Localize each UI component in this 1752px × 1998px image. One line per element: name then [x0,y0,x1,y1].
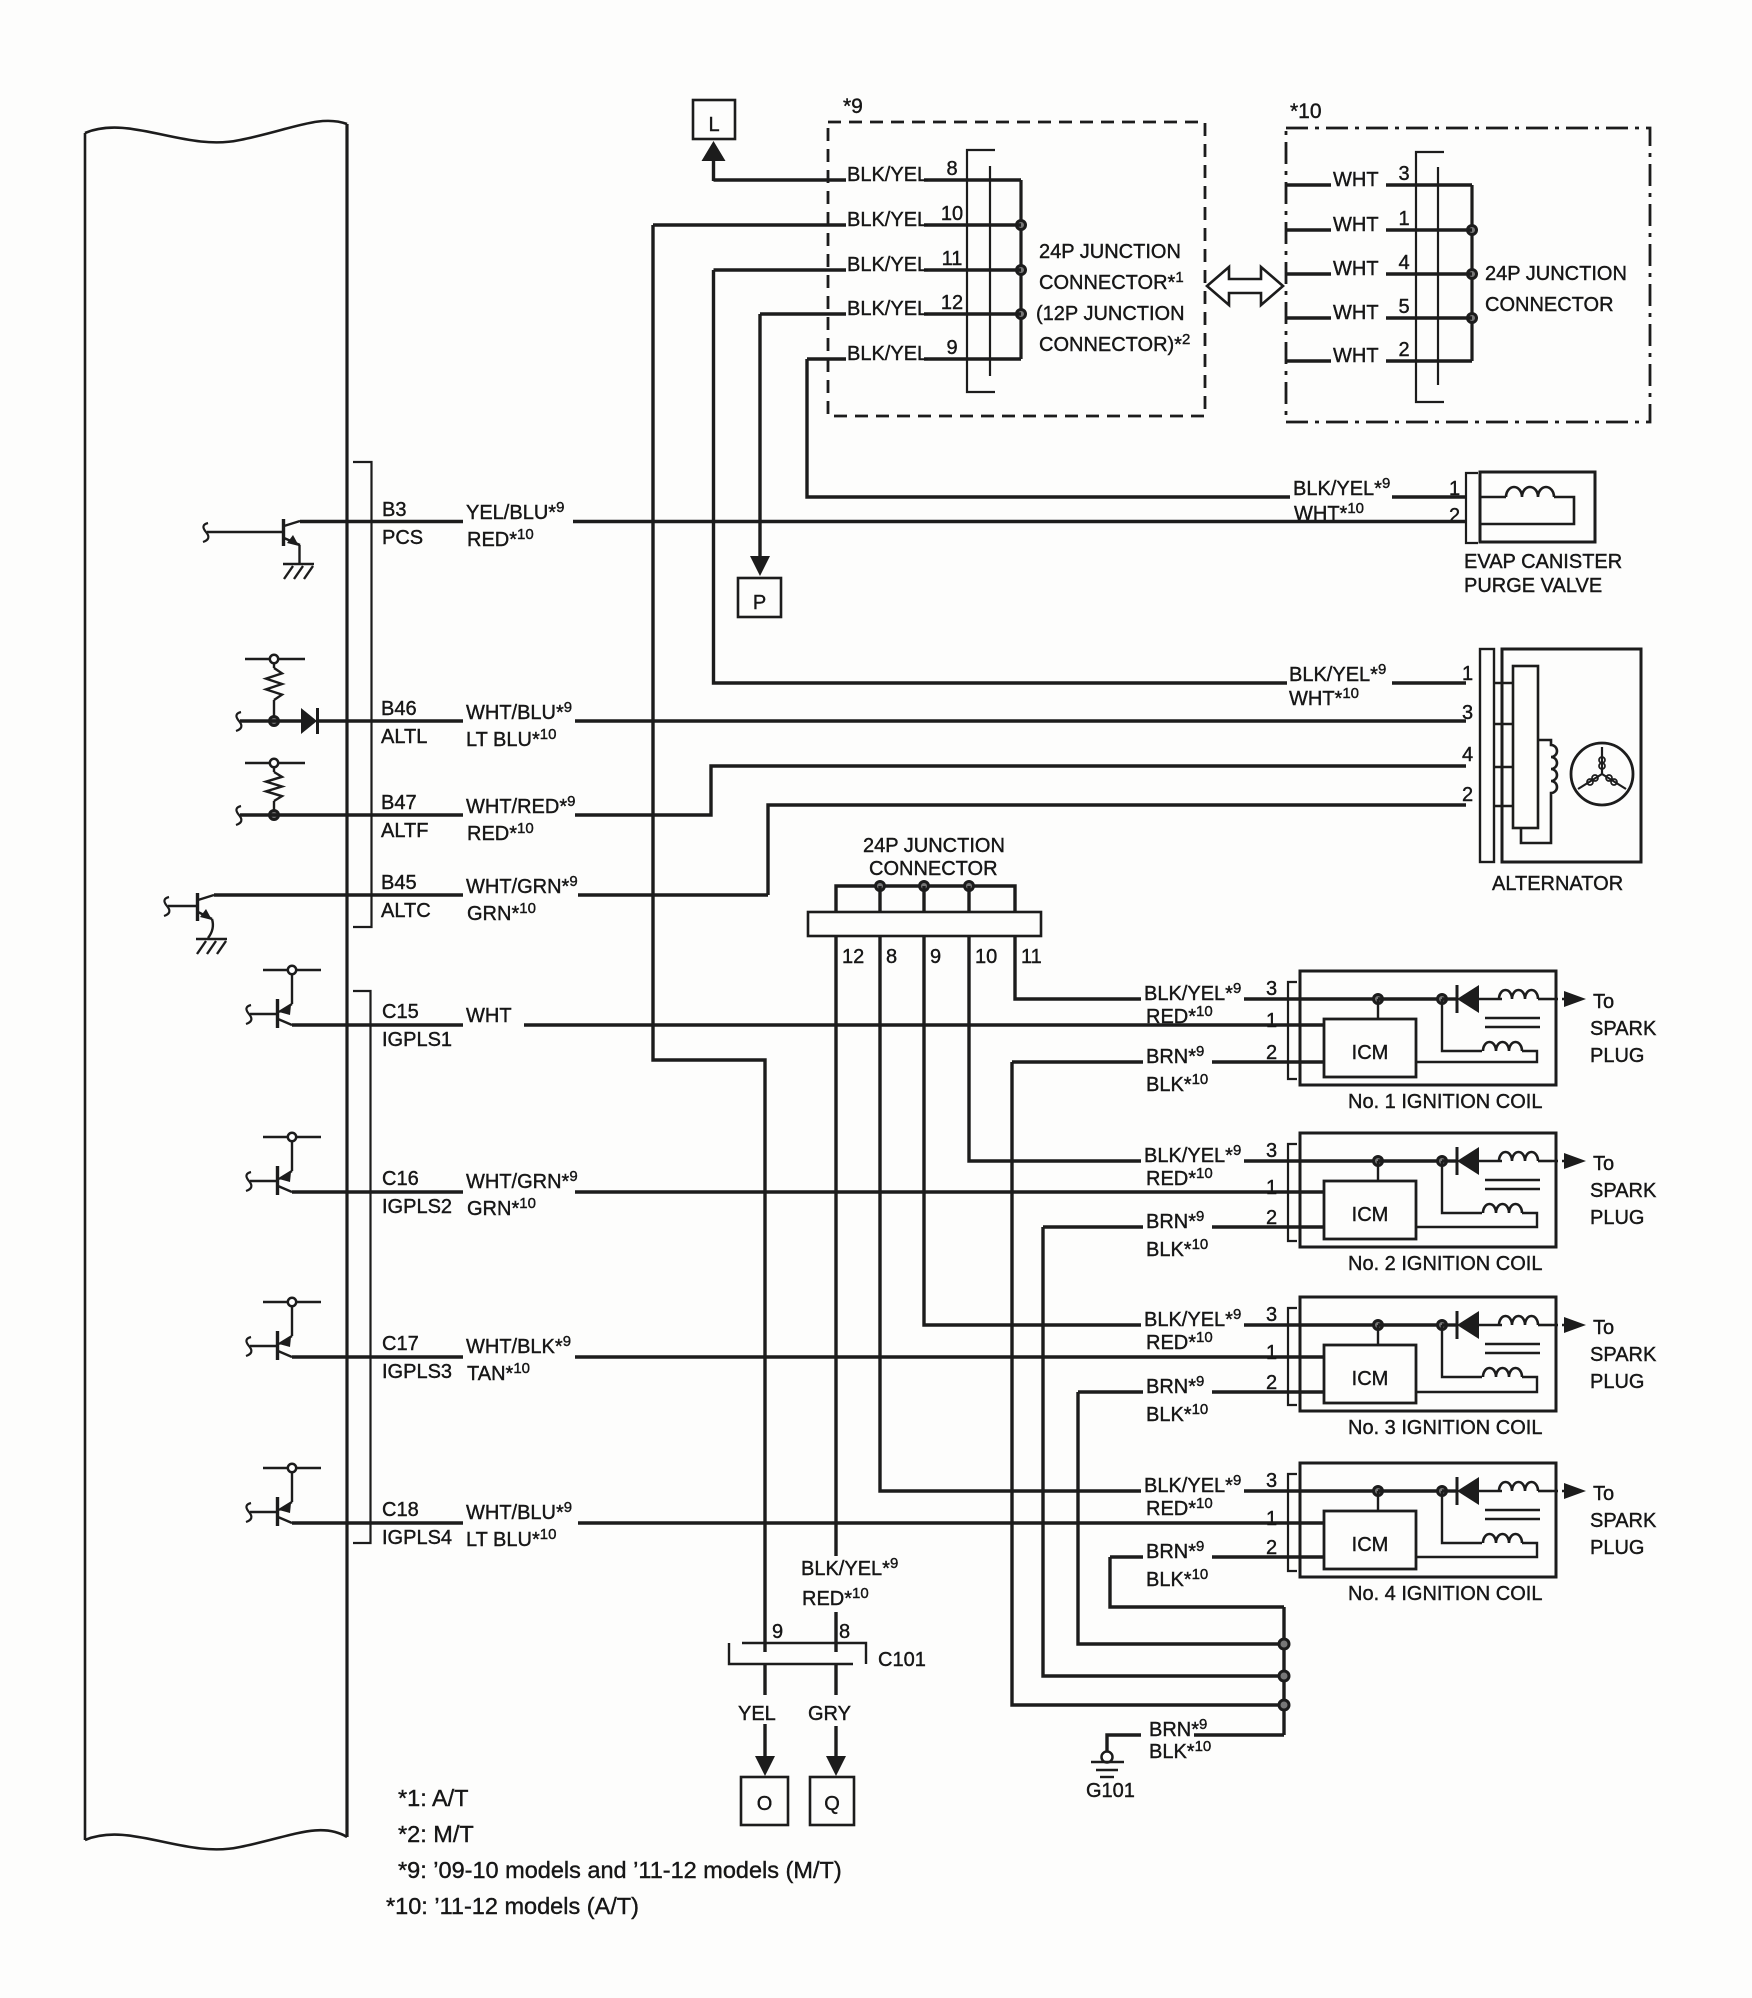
wire pin2 BRN (coil 2) [1043,1225,1143,1228]
svg-text:5: 5 [1398,296,1409,318]
wire WHT pin 5 [1286,316,1331,319]
svg-text:ALTC: ALTC [381,900,431,922]
core lines (coil 3) [1485,1343,1540,1345]
svg-text:9: 9 [930,946,941,968]
wire B3 PCS to EVAP pin2 [573,520,1466,523]
svg-text:CONNECTOR: CONNECTOR [1485,294,1614,316]
wire BRN drop (coil 1) [1012,1062,1284,1705]
wire B45 to alternator pin2 jog [214,893,463,896]
svg-text:9: 9 [772,1621,783,1643]
junction node (ALTF) [270,811,279,820]
svg-text:C16: C16 [382,1168,419,1190]
wire pin3 into coil 2 [1244,1159,1378,1162]
svg-text:*9: *9 [843,95,863,118]
svg-text:WHT/GRN*9: WHT/GRN*9 [466,1168,578,1193]
terminal arrow P [750,556,770,576]
diode (coil 1) [1457,985,1479,1013]
core lines (coil 4) [1485,1509,1540,1511]
svg-text:1: 1 [1266,1010,1277,1032]
svg-text:BLK/YEL*9: BLK/YEL*9 [1293,475,1390,500]
svg-text:IGPLS2: IGPLS2 [382,1196,452,1218]
svg-text:3: 3 [1462,702,1473,724]
svg-text:1: 1 [1266,1342,1277,1364]
svg-text:No. 2 IGNITION COIL: No. 2 IGNITION COIL [1348,1253,1542,1275]
svg-text:24P JUNCTION: 24P JUNCTION [863,835,1005,857]
wire pin2 BRN (coil 4) [1110,1555,1143,1558]
wire C16 [292,1190,463,1193]
svg-text:WHT: WHT [1333,169,1379,191]
svg-text:Q: Q [824,1793,840,1815]
svg-text:2: 2 [1398,339,1409,361]
svg-text:3: 3 [1266,1304,1277,1326]
No.3 IGNITION COIL box [1300,1297,1556,1411]
svg-text:WHT: WHT [1333,214,1379,236]
svg-text:B3: B3 [382,499,406,521]
wire BRN drop (coil 3) [1078,1392,1284,1644]
svg-text:WHT/GRN*9: WHT/GRN*9 [466,873,578,898]
wire pin12 drop to C101 pin8 [834,936,837,1556]
arrow to spark plug (coil 4) [1552,1490,1566,1493]
svg-text:*2: M/T: *2: M/T [398,1821,474,1847]
junction joint [876,882,885,891]
svg-text:*9: ’09-10 models and ’11-12 m: *9: ’09-10 models and ’11-12 models (M/T… [398,1857,842,1883]
svg-text:WHT/BLU*9: WHT/BLU*9 [466,699,572,724]
svg-text:PLUG: PLUG [1590,1371,1644,1393]
svg-text:BRN*9: BRN*9 [1146,1208,1204,1233]
wire pin3 into coil 4 [1244,1489,1378,1492]
wire BRN drop (coil 4) [1110,1557,1284,1607]
svg-text:WHT/BLU*9: WHT/BLU*9 [466,1499,572,1524]
svg-text:To: To [1593,991,1614,1013]
wire BLK/YEL pin 11 [714,268,847,271]
wire pin11 drop to coil1 pin3 [1015,936,1141,999]
wire WHT pin 3 [1286,183,1331,186]
primary winding (coil 1) [1499,990,1538,999]
wire BLK/YEL pin10 drop [653,225,765,1652]
svg-text:IGPLS4: IGPLS4 [382,1527,452,1549]
wire BLK/YEL pin 12 [760,312,846,315]
svg-text:B47: B47 [381,792,417,814]
junction bus (middle) [836,886,1015,912]
svg-text:BLK/YEL: BLK/YEL [847,343,928,365]
wire pin8 drop to coil4 pin3 [880,936,1141,1491]
wire pin3 into coil 1 [1244,997,1378,1000]
wire BLK/YEL pin 9 [807,357,846,360]
wire B46 continuation to alternator pin3 [575,719,1466,722]
svg-text:P: P [753,592,766,614]
connector bracket (coil 4) [1288,1474,1297,1571]
svg-text:BLK/YEL: BLK/YEL [847,298,928,320]
arrow to spark plug (coil 1) [1552,998,1566,1001]
svg-text:ALTL: ALTL [381,726,427,748]
wire BLK/YEL pin11 drop to alternator pin1 [714,270,1288,683]
connector bracket EVAP [1466,473,1478,543]
wire YEL to O [763,1664,766,1695]
svg-text:WHT: WHT [1333,345,1379,367]
diode (coil 4) [1457,1477,1479,1505]
svg-text:10: 10 [941,203,963,225]
wire to G101 [1194,1733,1284,1736]
solenoid coil (EVAP) [1480,496,1506,499]
svg-text:PLUG: PLUG [1590,1537,1644,1559]
connector bracket B-pin group [353,462,372,927]
primary winding (coil 3) [1499,1316,1538,1325]
wire BLK/YEL pin9 drop to EVAP pin1 [807,359,1290,497]
wire B47 [236,806,241,825]
wire WHT pin 2 [1286,359,1331,362]
svg-text:C17: C17 [382,1333,419,1355]
svg-text:3: 3 [1398,163,1409,185]
ground bus join [1282,1607,1285,1735]
svg-text:ICM: ICM [1352,1204,1389,1226]
svg-text:*1: A/T: *1: A/T [398,1785,469,1811]
wire BLK/YEL pin12 drop to P [758,314,761,559]
junction joint (ground bus) [1279,1671,1289,1681]
svg-text:YEL/BLU*9: YEL/BLU*9 [466,499,564,524]
No.1 IGNITION COIL box [1300,971,1556,1085]
connector C101 [742,1643,866,1650]
double-headed arrow (connector equivalence) [1207,267,1283,305]
svg-text:WHT: WHT [466,1005,512,1027]
svg-text:BLK/YEL*9: BLK/YEL*9 [1144,1472,1241,1497]
svg-text:11: 11 [942,248,963,270]
core lines (coil 2) [1485,1179,1540,1181]
svg-text:3: 3 [1266,978,1277,1000]
svg-text:L: L [708,114,719,136]
svg-text:3: 3 [1266,1470,1277,1492]
secondary winding (coil 4) [1442,1491,1482,1543]
svg-text:To: To [1593,1483,1614,1505]
svg-text:1: 1 [1398,208,1409,230]
transistor Q (C17 driver) [263,1301,321,1303]
secondary winding (coil 1) [1442,999,1482,1051]
secondary winding (coil 3) [1442,1325,1482,1377]
dash-dot box *10 [1286,128,1650,422]
svg-text:CONNECTOR*1: CONNECTOR*1 [1039,269,1184,294]
svg-text:G101: G101 [1086,1780,1135,1802]
terminal box L [693,100,735,139]
wire: arrow up into L [712,158,715,181]
primary circuit (coil 4) [1374,1487,1383,1496]
svg-text:SPARK: SPARK [1590,1510,1657,1532]
junction node (ALTL) [270,717,279,726]
junction connector bracket (24P) right [1416,152,1444,402]
connector bracket (coil 1) [1288,982,1297,1079]
svg-text:24P JUNCTION: 24P JUNCTION [1485,263,1627,285]
stator windings (alternator) [1571,743,1633,805]
svg-text:ICM: ICM [1352,1042,1389,1064]
core lines (coil 1) [1485,1017,1540,1019]
svg-text:BLK/YEL*9: BLK/YEL*9 [1144,1142,1241,1167]
junction joint (ground bus) [1279,1639,1289,1649]
terminal box P [738,578,781,617]
junction bus with joints right [1470,185,1473,361]
svg-text:BLK/YEL: BLK/YEL [847,254,928,276]
svg-text:IGPLS3: IGPLS3 [382,1361,452,1383]
diode (coil 2) [1457,1147,1479,1175]
wire C18 [292,1521,463,1524]
connector bracket (coil 2) [1288,1144,1297,1241]
svg-text:SPARK: SPARK [1590,1018,1657,1040]
svg-text:SPARK: SPARK [1590,1344,1657,1366]
svg-text:C15: C15 [382,1001,419,1023]
svg-text:BRN*9: BRN*9 [1146,1043,1204,1068]
ground G101 [1102,1752,1113,1763]
svg-text:1: 1 [1266,1508,1277,1530]
wire C15 [292,1023,463,1026]
primary circuit (coil 1) [1374,995,1383,1004]
secondary winding (coil 2) [1442,1161,1482,1213]
junction joint [920,882,929,891]
wire BRN drop (coil 2) [1043,1227,1284,1676]
primary winding (coil 2) [1499,1152,1538,1161]
wire BLK/YEL pin 8 [714,178,847,181]
EVAP CANISTER PURGE VALVE box [1480,472,1595,542]
svg-text:BLK/YEL: BLK/YEL [847,164,928,186]
svg-text:BLK/YEL*9: BLK/YEL*9 [801,1555,898,1580]
svg-text:8: 8 [886,946,897,968]
svg-text:ICM: ICM [1352,1368,1389,1390]
svg-text:SPARK: SPARK [1590,1180,1657,1202]
svg-text:4: 4 [1462,744,1473,766]
wire BLK/YEL pin 10 [653,223,846,226]
svg-text:No. 3 IGNITION COIL: No. 3 IGNITION COIL [1348,1417,1542,1439]
wire WHT pin 4 [1286,272,1331,275]
svg-text:10: 10 [975,946,997,968]
svg-text:PLUG: PLUG [1590,1207,1644,1229]
ICM box (coil 3) [1324,1345,1416,1403]
svg-text:BLK/YEL: BLK/YEL [847,209,928,231]
svg-text:8: 8 [839,1621,850,1643]
wire pin9 drop to coil3 pin3 [924,936,1141,1325]
junction bus with joints [1019,180,1022,359]
transistor Q (C16 driver) [263,1136,321,1138]
svg-text:B46: B46 [381,698,417,720]
svg-text:ALTF: ALTF [381,820,428,842]
svg-text:2: 2 [1449,505,1460,527]
wire pin3 into coil 3 [1244,1323,1378,1326]
svg-text:WHT/BLK*9: WHT/BLK*9 [466,1333,571,1358]
wire C15 to coil1 pin1 [524,1023,1324,1026]
primary circuit (coil 2) [1374,1157,1383,1166]
wire C18 to coil4 pin1 [578,1521,1324,1524]
svg-text:CONNECTOR)*2: CONNECTOR)*2 [1039,331,1190,356]
svg-text:IGPLS1: IGPLS1 [382,1029,452,1051]
arrow to spark plug (coil 3) [1552,1324,1566,1327]
svg-text:BLK/YEL*9: BLK/YEL*9 [1144,980,1241,1005]
resistor pull-up (ALTL) [245,658,305,660]
svg-text:2: 2 [1462,784,1473,806]
No.4 IGNITION COIL box [1300,1463,1556,1577]
svg-text:1: 1 [1449,478,1460,500]
svg-text:12: 12 [842,946,864,968]
ground (ALTC driver) [196,938,227,941]
svg-text:*10: *10 [1290,100,1322,123]
transistor Q (ALTC driver) [164,897,169,916]
svg-text:9: 9 [946,337,957,359]
svg-text:BRN*9: BRN*9 [1146,1538,1204,1563]
svg-text:1: 1 [1266,1177,1277,1199]
svg-text:C18: C18 [382,1499,419,1521]
wire B46 with diode [236,712,241,731]
wire B47 jog to alternator pin4 [575,766,1466,815]
terminal box O [741,1777,788,1825]
wire C16 to coil2 pin1 [575,1190,1324,1193]
svg-text:8: 8 [946,158,957,180]
diode (coil 3) [1457,1311,1479,1339]
svg-text:1: 1 [1462,663,1473,685]
svg-text:EVAP CANISTER: EVAP CANISTER [1464,551,1622,573]
wire WHT pin 1 [1286,228,1331,231]
svg-text:To: To [1593,1153,1614,1175]
field coil (alternator) [1521,740,1557,843]
junction connector bracket (24P/12P) [967,150,995,392]
ECM wire-harness bar (torn edges) [85,121,347,143]
primary circuit (coil 3) [1374,1321,1383,1330]
connector bracket (coil 3) [1288,1308,1297,1405]
svg-text:No. 4 IGNITION COIL: No. 4 IGNITION COIL [1348,1583,1542,1605]
ground (PCS driver) [283,563,314,566]
svg-text:O: O [757,1793,773,1815]
svg-text:12: 12 [941,292,963,314]
svg-text:WHT: WHT [1333,302,1379,324]
svg-text:WHT: WHT [1333,258,1379,280]
wire pin10 drop to coil2 pin3 [969,936,1141,1161]
svg-text:CONNECTOR: CONNECTOR [869,858,998,880]
transistor Q (PCS driver) [203,523,208,542]
connector bar (middle 24P) [808,912,1041,936]
svg-text:ALTERNATOR: ALTERNATOR [1492,873,1623,895]
primary winding (coil 4) [1499,1482,1538,1491]
svg-text:ICM: ICM [1352,1534,1389,1556]
svg-text:BLK/YEL*9: BLK/YEL*9 [1289,661,1386,686]
svg-text:PLUG: PLUG [1590,1045,1644,1067]
svg-text:C101: C101 [878,1649,926,1671]
svg-text:(12P JUNCTION: (12P JUNCTION [1036,303,1185,325]
svg-text:B45: B45 [381,872,417,894]
resistor pull-up (ALTF) [245,762,305,764]
svg-text:BRN*9: BRN*9 [1146,1373,1204,1398]
svg-text:PURGE VALVE: PURGE VALVE [1464,575,1602,597]
connector bar (alternator) [1480,649,1494,862]
svg-text:WHT/RED*9: WHT/RED*9 [466,793,575,818]
svg-text:YEL: YEL [738,1703,776,1725]
ICM box (coil 4) [1324,1511,1416,1569]
junction joint (ground bus) [1279,1700,1289,1710]
svg-text:3: 3 [1266,1140,1277,1162]
wire C17 to coil3 pin1 [575,1355,1324,1358]
svg-text:BLK/YEL*9: BLK/YEL*9 [1144,1306,1241,1331]
svg-text:24P JUNCTION: 24P JUNCTION [1039,241,1181,263]
wire B3 from transistor to ECM edge [300,520,463,523]
ICM box (coil 1) [1324,1019,1416,1077]
svg-text:PCS: PCS [382,527,423,549]
svg-text:11: 11 [1021,946,1042,968]
connector bracket C-pin group [353,991,371,1543]
transistor Q (C18 driver) [263,1467,321,1469]
wire pin2 BRN (coil 1) [1012,1060,1143,1063]
arrow to spark plug (coil 2) [1552,1160,1566,1163]
terminal box Q [810,1777,854,1825]
diode (ALTL) [301,708,317,734]
svg-text:*10: ’11-12 models (A/T): *10: ’11-12 models (A/T) [386,1893,639,1919]
wire GRY to Q [834,1664,837,1695]
junction joint [965,882,974,891]
dashed box *9 [828,122,1205,416]
svg-text:No. 1 IGNITION COIL: No. 1 IGNITION COIL [1348,1091,1542,1113]
svg-text:4: 4 [1398,252,1409,274]
ALTERNATOR box [1502,649,1641,862]
ICM box (coil 2) [1324,1181,1416,1239]
No.2 IGNITION COIL box [1300,1133,1556,1247]
regulator plate (alternator) [1513,666,1538,828]
svg-text:To: To [1593,1317,1614,1339]
svg-text:GRY: GRY [808,1703,851,1725]
wire pin2 BRN (coil 3) [1078,1390,1143,1393]
transistor Q (C15 driver) [263,969,321,971]
wire C17 [292,1355,463,1358]
